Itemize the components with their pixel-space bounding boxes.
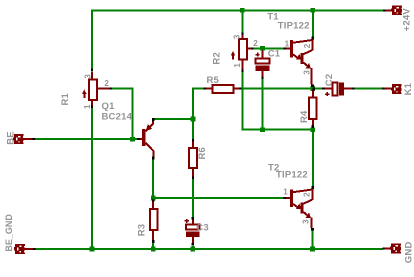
- svg-text:Q1: Q1: [102, 101, 116, 112]
- svg-text:K1: K1: [403, 82, 414, 95]
- svg-text:TIP122: TIP122: [276, 170, 308, 181]
- svg-text:BE_GND: BE_GND: [4, 214, 14, 252]
- svg-text:2: 2: [253, 39, 258, 48]
- svg-text:R2: R2: [211, 52, 222, 65]
- svg-text:R6: R6: [197, 147, 208, 160]
- svg-text:3: 3: [302, 219, 311, 224]
- svg-text:C3: C3: [196, 222, 209, 233]
- svg-text:C1: C1: [268, 48, 281, 59]
- svg-text:R5: R5: [207, 75, 220, 86]
- svg-text:1: 1: [283, 187, 288, 196]
- svg-text:BC214: BC214: [102, 112, 133, 123]
- svg-text:1: 1: [233, 63, 242, 68]
- svg-text:BE: BE: [5, 131, 16, 145]
- svg-text:3: 3: [83, 74, 92, 79]
- svg-text:2: 2: [104, 79, 109, 88]
- svg-text:1: 1: [285, 39, 290, 48]
- svg-text:3: 3: [233, 34, 242, 39]
- svg-text:R4: R4: [299, 110, 310, 123]
- svg-text:2: 2: [303, 192, 312, 197]
- svg-text:TIP122: TIP122: [278, 21, 310, 32]
- svg-text:R3: R3: [137, 224, 148, 237]
- svg-text:2: 2: [303, 43, 312, 48]
- svg-text:1: 1: [83, 104, 92, 109]
- svg-text:C2: C2: [324, 74, 335, 87]
- svg-text:3: 3: [303, 70, 312, 75]
- svg-text:R1: R1: [60, 92, 71, 105]
- svg-text:GND: GND: [403, 241, 414, 263]
- svg-text:+24V: +24V: [401, 8, 412, 32]
